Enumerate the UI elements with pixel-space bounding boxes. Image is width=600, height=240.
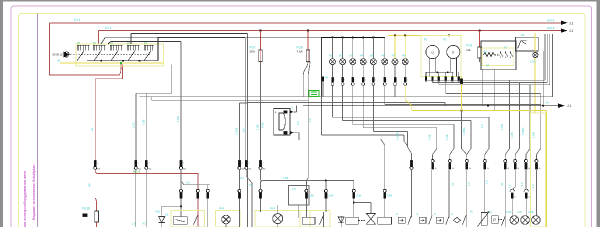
svg-text:1.0BG: 1.0BG	[462, 128, 466, 135]
svg-text:1.5B: 1.5B	[283, 176, 289, 180]
svg-text:H1: H1	[329, 53, 333, 57]
svg-text:HL2: HL2	[270, 206, 276, 210]
svg-text:H12: H12	[531, 60, 537, 64]
svg-text:A1.1: A1.1	[105, 26, 112, 30]
svg-text:H16: H16	[507, 210, 512, 214]
svg-text:X1: X1	[57, 59, 61, 63]
svg-text:P: P	[493, 218, 496, 223]
svg-text:1.0B: 1.0B	[142, 119, 146, 125]
svg-text:A2: A2	[484, 49, 488, 53]
svg-text:K3: K3	[143, 222, 147, 226]
svg-text:P1: P1	[424, 38, 428, 42]
svg-text:1.5: 1.5	[249, 183, 253, 187]
svg-text:J.1: J.1	[569, 21, 573, 25]
svg-text:G: G	[539, 168, 541, 170]
svg-text:Схема электрооборудования авто: Схема электрооборудования авто	[22, 170, 27, 227]
svg-text:P2: P2	[443, 38, 447, 42]
svg-text:18W: 18W	[309, 195, 315, 198]
svg-text:H18: H18	[529, 210, 534, 214]
svg-text:1.0: 1.0	[531, 184, 535, 188]
svg-text:1.5: 1.5	[308, 118, 312, 122]
svg-text:H3: H3	[349, 53, 353, 57]
svg-text:H2: H2	[339, 53, 343, 57]
svg-text:1.5BG: 1.5BG	[521, 128, 525, 135]
svg-text:25A: 25A	[250, 49, 255, 53]
svg-text:WS 8: WS 8	[547, 26, 555, 30]
svg-text:18W: 18W	[387, 195, 393, 198]
svg-text:X1.1: X1.1	[74, 18, 81, 22]
svg-text:C: C	[291, 106, 293, 110]
svg-text:1.5GB: 1.5GB	[396, 132, 400, 140]
svg-text:VD1: VD1	[155, 210, 161, 214]
svg-text:G: G	[528, 168, 530, 170]
svg-text:2.5: 2.5	[292, 187, 296, 191]
svg-text:1.5: 1.5	[132, 222, 136, 226]
svg-text:1.0: 1.0	[508, 184, 512, 188]
svg-text:6.0: 6.0	[186, 181, 190, 185]
svg-text:1.0W: 1.0W	[532, 131, 536, 138]
svg-text:1.5: 1.5	[520, 182, 524, 186]
svg-text:S: S	[417, 212, 419, 216]
svg-text:HA: HA	[467, 48, 471, 52]
svg-text:h: h	[452, 50, 454, 55]
svg-text:6.0: 6.0	[242, 128, 246, 132]
svg-text:G: G	[487, 168, 489, 170]
svg-text:H6: H6	[381, 53, 385, 57]
svg-text:1.0: 1.0	[296, 121, 300, 125]
svg-text:G: G	[435, 168, 437, 170]
svg-text:S: S	[396, 212, 398, 216]
svg-text:7.5A: 7.5A	[297, 49, 303, 53]
svg-text:Вариант исполнения Schaltplan: Вариант исполнения Schaltplan	[32, 165, 36, 220]
svg-text:J.1: J.1	[567, 104, 571, 108]
svg-text:S: S	[434, 212, 436, 216]
svg-text:FU1: FU1	[467, 44, 473, 48]
svg-text:H5: H5	[370, 53, 374, 57]
svg-text:G: G	[469, 168, 471, 170]
svg-text:q: q	[431, 50, 433, 55]
svg-text:1.0GB: 1.0GB	[235, 127, 239, 135]
svg-text:50 30 15: 50 30 15	[53, 53, 64, 57]
svg-text:1.0B: 1.0B	[428, 134, 432, 140]
svg-text:S1: S1	[521, 33, 525, 37]
svg-text:G: G	[508, 168, 510, 170]
svg-text:1.5G: 1.5G	[131, 122, 135, 128]
svg-text:ws: ws	[87, 183, 91, 187]
svg-text:FU16: FU16	[82, 207, 90, 211]
svg-text:1.5B: 1.5B	[445, 134, 449, 140]
svg-text:1.0: 1.0	[467, 182, 471, 186]
svg-text:H8: H8	[402, 53, 406, 57]
svg-text:K7: K7	[504, 46, 508, 50]
svg-text:1.5B: 1.5B	[255, 124, 259, 130]
svg-text:ws: ws	[90, 127, 94, 131]
svg-text:4.0: 4.0	[240, 176, 244, 180]
svg-text:6A: 6A	[325, 77, 328, 80]
svg-text:K1: K1	[165, 213, 169, 217]
svg-text:J.1: J.1	[569, 29, 573, 33]
svg-text:1.5: 1.5	[485, 180, 489, 184]
svg-text:H17: H17	[518, 210, 523, 214]
svg-text:21W: 21W	[328, 195, 334, 198]
svg-text:WS 8: WS 8	[547, 18, 555, 22]
svg-text:1.0: 1.0	[480, 124, 484, 128]
svg-text:HL1: HL1	[219, 206, 225, 210]
svg-text:G: G	[452, 168, 454, 170]
svg-text:H4: H4	[360, 53, 364, 57]
svg-text:1.0B: 1.0B	[510, 132, 514, 138]
svg-text:37: 37	[486, 64, 490, 68]
svg-text:4.0B: 4.0B	[261, 122, 265, 128]
svg-text:H7: H7	[392, 53, 396, 57]
svg-text:1.5W: 1.5W	[176, 115, 180, 122]
svg-text:G: G	[517, 168, 519, 170]
svg-text:S: S	[451, 212, 453, 216]
svg-text:1.5W: 1.5W	[500, 123, 504, 130]
svg-text:21W: 21W	[356, 195, 362, 198]
